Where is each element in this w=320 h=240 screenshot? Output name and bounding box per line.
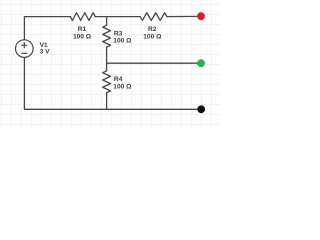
- wire: middle node branch to green terminal: [107, 62, 200, 64]
- wire: V1 bottom lead and bottom rail to black terminal: [24, 57, 200, 109]
- resistor R2: [140, 13, 167, 21]
- svg-text:100 Ω: 100 Ω: [143, 33, 162, 40]
- svg-text:R4: R4: [114, 76, 123, 83]
- wire: V1 top lead up and top rail left segment to R1: [24, 17, 70, 40]
- voltage source V1: [15, 40, 33, 58]
- wire: top rail right segment R2 to red terminal: [167, 15, 200, 17]
- svg-text:3 V: 3 V: [40, 48, 50, 55]
- wire: top rail middle segment R1 to R2 (through node above R3): [95, 16, 140, 18]
- svg-text:100 Ω: 100 Ω: [73, 33, 92, 40]
- node: green terminal (middle right): [197, 59, 205, 67]
- wire: R4 bottom lead to bottom rail: [106, 93, 108, 110]
- svg-text:100 Ω: 100 Ω: [113, 84, 132, 91]
- wire: R3 bottom lead to middle node: [106, 47, 108, 63]
- svg-text:R3: R3: [114, 30, 123, 37]
- svg-text:100 Ω: 100 Ω: [113, 38, 132, 45]
- node: black terminal (bottom right): [197, 105, 205, 113]
- wire: R4 top lead from middle node: [106, 63, 108, 71]
- resistor R4: [103, 71, 111, 93]
- wire: R3 top lead from top rail junction: [106, 17, 108, 26]
- resistor R1: [70, 13, 95, 21]
- svg-text:R1: R1: [78, 26, 87, 33]
- node: red terminal (top right): [197, 12, 205, 20]
- resistor R3: [103, 25, 111, 47]
- svg-text:R2: R2: [148, 26, 157, 33]
